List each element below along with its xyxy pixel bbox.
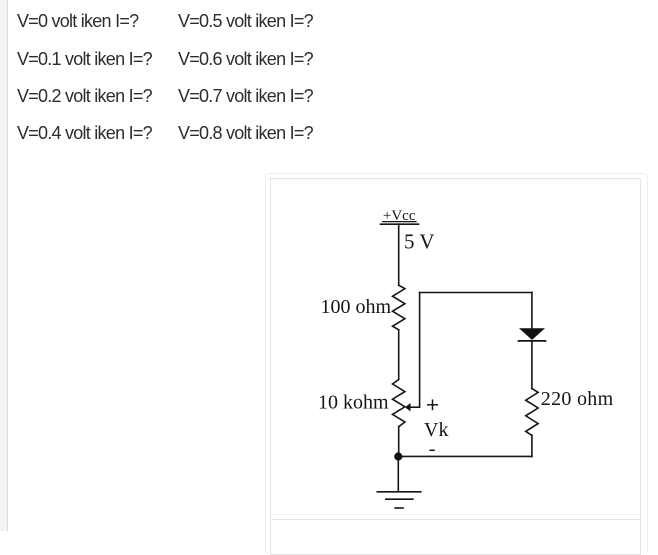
svg-text:5 V: 5 V <box>404 230 435 254</box>
svg-text:10 kohm: 10 kohm <box>318 392 389 414</box>
svg-text:+Vcc: +Vcc <box>383 208 416 224</box>
svg-text:100 ohm: 100 ohm <box>320 296 391 318</box>
svg-text:220 ohm: 220 ohm <box>541 388 614 410</box>
svg-text:Vk: Vk <box>424 419 448 441</box>
